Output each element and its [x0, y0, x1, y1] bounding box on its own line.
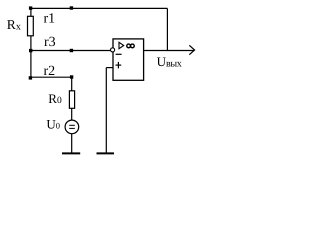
wire R0 to source U0: [71, 108, 73, 120]
resistor R0: [69, 91, 74, 109]
op-amp inverting input minus sign: [116, 53, 122, 55]
output arrowhead: [189, 45, 194, 54]
node dot r3 middle: [70, 49, 73, 52]
svg-text:r2: r2: [44, 64, 56, 79]
node dot r3 left: [29, 49, 32, 52]
node dot r1 middle: [70, 6, 73, 9]
wire output: [144, 50, 194, 52]
ground (right, under op-amp + input): [97, 152, 115, 154]
svg-text:r1: r1: [44, 12, 56, 27]
wire non-inverting input down to ground: [105, 68, 107, 153]
wire feedback vertical: [166, 8, 168, 50]
op-amp infinity symbol: [127, 44, 131, 48]
node dot r1 left: [29, 6, 32, 9]
op-amp U1 body: [113, 39, 144, 80]
wire R0 top lead: [71, 77, 73, 91]
wire r2: [31, 76, 72, 78]
op-amp gain triangle: [119, 42, 124, 48]
wire non-inverting input lead: [106, 67, 113, 69]
value = inside source: [69, 125, 75, 128]
wire r3: [31, 50, 111, 52]
ground (left, under U0): [62, 152, 80, 154]
node dot r2 left: [29, 76, 32, 79]
svg-text:r3: r3: [44, 35, 56, 50]
resistor Rx: [28, 16, 34, 36]
node dot r2 right: [70, 75, 73, 78]
op-amp non-inverting input plus sign: [116, 62, 122, 69]
op-amp inversion circle on input pin: [111, 48, 115, 52]
wire Rx bottom lead down to r2: [30, 36, 32, 77]
voltage source U0: [65, 120, 79, 134]
wire Rx top lead: [30, 8, 32, 16]
wire source U0 to ground: [71, 134, 73, 153]
wire r1 top horizontal: [31, 7, 168, 9]
